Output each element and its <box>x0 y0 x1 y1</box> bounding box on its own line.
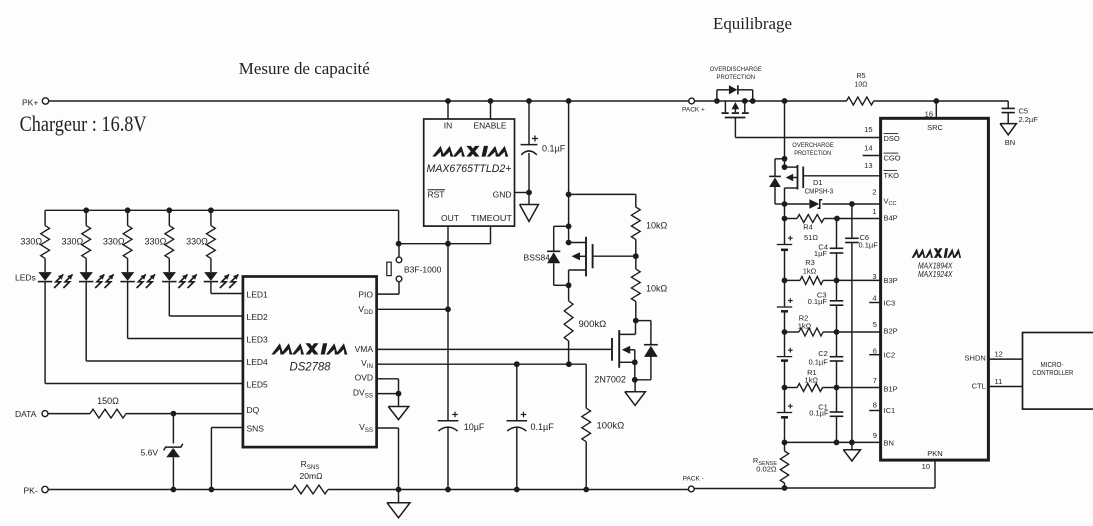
svg-text:7: 7 <box>873 376 877 385</box>
node PACK+ terminal <box>689 98 695 104</box>
LED D2 <box>80 272 93 281</box>
wire R4 to B4P pin1 <box>837 218 881 220</box>
svg-text:B3P: B3P <box>884 276 898 285</box>
svg-text:LED4: LED4 <box>247 357 269 367</box>
wire SHDN pin12 <box>988 358 1022 360</box>
wire VSS <box>377 427 399 429</box>
svg-text:R5: R5 <box>857 73 866 80</box>
resistor 330ohm #3 <box>127 210 129 225</box>
resistor R5 10ohm <box>847 97 874 105</box>
IC U2 DS2788 box <box>243 277 377 448</box>
wire R5 to SRC <box>874 100 937 102</box>
resistor R1 1kohm <box>785 387 798 389</box>
svg-text:B3F-1000: B3F-1000 <box>404 264 442 274</box>
svg-text:GND: GND <box>493 190 512 200</box>
wire zener top <box>172 414 174 444</box>
transistor Q2 2N7002 <box>611 338 613 361</box>
DS2788 MAXIM logo <box>271 343 347 354</box>
overcharge body diode <box>775 158 785 160</box>
wire LED1 to DS2788 <box>210 282 212 294</box>
wire bottom rail mid <box>328 489 688 491</box>
node PK+ terminal <box>42 98 48 104</box>
svg-text:CONTROLLER: CONTROLLER <box>1032 370 1073 377</box>
svg-text:1µF: 1µF <box>814 249 827 258</box>
svg-text:CTL: CTL <box>972 381 986 390</box>
svg-text:330Ω: 330Ω <box>145 236 167 246</box>
node DATA terminal <box>42 411 48 417</box>
stub pin14 CGO <box>863 155 881 157</box>
wire cell4-cell3 <box>784 250 786 307</box>
capacitor C4 1uF <box>836 219 838 249</box>
wire LED anode bus <box>45 209 399 211</box>
wire stack bottom to BN pin9 <box>785 441 881 443</box>
svg-text:2N7002: 2N7002 <box>594 375 626 385</box>
svg-text:B4P: B4P <box>884 214 898 223</box>
svg-text:SNS: SNS <box>247 424 265 434</box>
svg-text:9: 9 <box>873 431 877 440</box>
capacitor 0.1uF mid <box>516 364 518 421</box>
LED D5 <box>204 272 217 281</box>
wire DATA to resistor <box>48 413 90 415</box>
wire DVSS <box>377 393 399 395</box>
svg-text:10: 10 <box>922 462 930 471</box>
svg-text:DQ: DQ <box>247 405 260 415</box>
svg-text:4: 4 <box>872 293 876 302</box>
resistor 330ohm #5 <box>210 210 212 225</box>
svg-text:PACK +: PACK + <box>682 106 705 113</box>
svg-text:10Ω: 10Ω <box>854 81 867 88</box>
wire top rail to BSS84 <box>568 101 570 243</box>
svg-text:DSO: DSO <box>884 134 900 143</box>
wire VIN <box>377 363 587 365</box>
LED D1 <box>38 272 51 281</box>
svg-text:Equilibrage: Equilibrage <box>713 14 792 33</box>
resistor R3 1kohm <box>785 279 801 281</box>
wire battery stack top <box>784 204 786 245</box>
wire SNS to PK- <box>210 428 212 490</box>
svg-text:8: 8 <box>873 400 877 409</box>
MAX1894X MAXIM logo <box>912 248 962 258</box>
svg-text:16: 16 <box>925 110 933 119</box>
svg-text:ENABLE: ENABLE <box>474 121 507 131</box>
svg-text:1kΩ: 1kΩ <box>804 376 818 385</box>
svg-text:LEDs: LEDs <box>15 272 36 282</box>
svg-text:IC1: IC1 <box>884 406 896 415</box>
svg-text:TKO: TKO <box>884 171 900 180</box>
capacitor C6 0.1uF <box>851 204 853 238</box>
resistor 330ohm #4 <box>168 210 170 225</box>
svg-text:10µF: 10µF <box>464 422 485 432</box>
svg-text:CGO: CGO <box>884 154 901 163</box>
ground at DVSS <box>398 394 400 407</box>
wire TIMEOUT pin <box>490 226 492 244</box>
diode D1 CMPSH-3 <box>785 203 810 205</box>
battery cell B3 <box>777 306 792 308</box>
wire PKN pin10 <box>934 460 936 488</box>
MAX6765 MAXIM logo <box>432 146 508 157</box>
wire BSS84 gate <box>594 255 636 257</box>
svg-text:10kΩ: 10kΩ <box>646 284 668 294</box>
overdischarge body diode <box>716 90 718 101</box>
wire cell3-cell2 <box>784 311 786 356</box>
resistor 900kohm <box>568 285 570 301</box>
microcontroller box <box>1023 333 1093 410</box>
stub pin6 IC2 <box>869 354 880 356</box>
svg-text:5: 5 <box>873 320 877 329</box>
svg-text:VMA: VMA <box>355 344 374 354</box>
svg-text:330Ω: 330Ω <box>20 236 42 246</box>
svg-text:1kΩ: 1kΩ <box>798 321 812 330</box>
svg-text:TIMEOUT: TIMEOUT <box>471 213 512 223</box>
resistor RSENSE 0.02ohm <box>784 442 786 451</box>
wire overcharge gate to TKO pin13 <box>804 175 881 177</box>
svg-text:BN: BN <box>1005 138 1015 147</box>
wire to 10k divider <box>569 193 636 195</box>
svg-text:MICRO-: MICRO- <box>1041 362 1065 369</box>
svg-text:0.1µF: 0.1µF <box>809 409 829 418</box>
svg-text:SRC: SRC <box>927 123 943 132</box>
wire cell2-cell1 <box>784 361 786 413</box>
svg-text:BSS84: BSS84 <box>524 253 551 263</box>
transistor Q3 overdischarge MOSFET <box>724 101 726 112</box>
wire cell1-bottom <box>784 417 786 442</box>
svg-text:0.1µF: 0.1µF <box>542 144 566 154</box>
svg-text:D1: D1 <box>813 178 823 187</box>
svg-text:IN: IN <box>444 121 453 131</box>
wire OUT to VDD <box>447 244 449 310</box>
capacitor C5 2.2uF <box>1007 101 1009 108</box>
zener diode 5.6V <box>164 444 183 451</box>
svg-text:DATA: DATA <box>15 409 37 419</box>
resistor RSNS 20mohm <box>292 485 328 494</box>
svg-text:330Ω: 330Ω <box>186 236 208 246</box>
ground at VSS <box>398 490 400 503</box>
svg-text:B2P: B2P <box>884 327 898 336</box>
junction dots on LED bus <box>83 207 89 213</box>
svg-text:1kΩ: 1kΩ <box>803 267 817 276</box>
capacitor C2 0.1uF <box>836 332 838 357</box>
svg-text:330Ω: 330Ω <box>61 236 83 246</box>
svg-text:SHDN: SHDN <box>965 354 986 363</box>
svg-text:LED5: LED5 <box>247 380 269 390</box>
svg-text:13: 13 <box>864 161 872 170</box>
wire LED3 to DS2788 <box>127 282 129 339</box>
svg-text:LED2: LED2 <box>247 312 269 322</box>
svg-text:12: 12 <box>995 349 1003 358</box>
svg-text:B1P: B1P <box>884 385 898 394</box>
LED D4 <box>163 272 176 281</box>
svg-text:51Ω: 51Ω <box>804 233 818 242</box>
svg-text:R4: R4 <box>803 222 813 231</box>
svg-text:0.1µF: 0.1µF <box>808 357 828 366</box>
svg-text:10kΩ: 10kΩ <box>646 221 668 231</box>
svg-text:20mΩ: 20mΩ <box>300 471 323 481</box>
svg-text:2: 2 <box>872 188 876 197</box>
svg-text:PIO: PIO <box>358 290 373 300</box>
capacitor 10uF <box>447 309 449 421</box>
svg-text:100kΩ: 100kΩ <box>597 420 625 431</box>
wire CTL pin11 <box>988 386 1022 388</box>
wire D1 to Vcc pin2 <box>822 203 880 205</box>
svg-text:LED1: LED1 <box>247 290 269 300</box>
wire resistor to DQ <box>126 413 243 415</box>
IC U1 MAX6765TTLD2+ box <box>424 119 515 226</box>
LED D3 <box>121 272 134 281</box>
ground at GND <box>528 193 530 205</box>
svg-text:PK-: PK- <box>24 486 38 496</box>
transistor Q1 BSS84 <box>569 242 586 244</box>
svg-text:150Ω: 150Ω <box>97 396 119 406</box>
wire overdischarge gate to DSO pin15 <box>734 118 736 138</box>
resistor R4 51ohm <box>785 218 798 220</box>
ground at BN <box>851 442 853 449</box>
wire SRC to C5 <box>936 100 1008 102</box>
wire OVD <box>377 378 399 380</box>
battery cell B4 <box>777 244 792 246</box>
svg-text:PROTECTION: PROTECTION <box>794 150 831 157</box>
svg-text:OVERCHARGE: OVERCHARGE <box>792 142 834 149</box>
svg-text:MAX6765TTLD2+: MAX6765TTLD2+ <box>427 163 513 175</box>
svg-text:CMPSH-3: CMPSH-3 <box>805 187 834 196</box>
capacitor 0.1uF at MAX6765 <box>528 101 530 145</box>
svg-text:15: 15 <box>864 125 872 134</box>
node PK- terminal <box>42 486 48 492</box>
wire LED2 to DS2788 <box>168 282 170 316</box>
BSS84 body diode <box>566 223 572 229</box>
wire SRC pin16 <box>935 101 937 118</box>
svg-text:BN: BN <box>884 438 894 447</box>
svg-text:PROTECTION: PROTECTION <box>717 74 756 81</box>
svg-text:PK+: PK+ <box>22 98 38 108</box>
wire LED5 to DS2788 <box>44 282 46 384</box>
stub pin4 IC3 <box>869 302 880 304</box>
svg-text:900kΩ: 900kΩ <box>579 319 607 330</box>
capacitor C3 0.1uF <box>836 280 838 300</box>
switch B3F-1000 <box>396 257 402 263</box>
svg-text:IC2: IC2 <box>884 351 896 360</box>
svg-text:0.1µF: 0.1µF <box>531 422 555 432</box>
wire ENABLE pin <box>490 101 492 119</box>
wire bottom rail right <box>694 488 784 490</box>
junction DQ/zener <box>171 411 177 417</box>
svg-text:1: 1 <box>872 207 876 216</box>
capacitor C1 0.1uF <box>836 388 838 412</box>
wire bottom rail left <box>48 489 292 491</box>
wire top rail right <box>695 100 847 102</box>
svg-text:MAX1924X: MAX1924X <box>918 270 953 279</box>
resistor R2 1kohm <box>785 331 800 333</box>
junction LED bus / B3F <box>396 241 402 247</box>
svg-text:OVERDISCHARGE: OVERDISCHARGE <box>710 66 762 73</box>
svg-text:OVD: OVD <box>355 373 373 383</box>
wire R3 to B3P pin3 <box>837 279 881 281</box>
svg-text:OUT: OUT <box>441 213 459 223</box>
resistor 330ohm #2 <box>85 210 87 225</box>
ground BN at C5 <box>1000 124 1016 135</box>
battery cell B1 <box>777 412 792 414</box>
junction SNS/PK- <box>209 487 215 493</box>
svg-text:2.2µF: 2.2µF <box>1019 115 1039 124</box>
svg-text:PACK -: PACK - <box>683 476 704 483</box>
wire OUT pin <box>447 226 449 244</box>
node PACK- terminal <box>688 486 694 492</box>
stub pin8 IC1 <box>869 410 880 412</box>
svg-text:PKN: PKN <box>927 449 942 458</box>
svg-text:DS2788: DS2788 <box>290 362 332 374</box>
resistor 10kohm lower <box>635 256 637 269</box>
wire zener bottom <box>172 457 174 489</box>
transistor Q4 overcharge MOSFET <box>784 159 786 167</box>
svg-text:0.1µF: 0.1µF <box>808 297 828 306</box>
ground at 2N7002 source <box>634 380 636 392</box>
wire top rail left <box>49 100 689 102</box>
wire PIO <box>377 293 399 295</box>
svg-text:LED3: LED3 <box>247 335 269 345</box>
IC U3 MAX1894X box <box>881 118 989 460</box>
wire IN pin <box>447 101 449 119</box>
wire GND pin <box>515 192 530 194</box>
svg-text:5.6V: 5.6V <box>141 448 159 458</box>
junction zener/PK- <box>171 487 177 493</box>
svg-text:3: 3 <box>872 272 876 281</box>
wire top rail to overcharge MOSFET <box>784 101 786 159</box>
svg-text:0.1µF: 0.1µF <box>859 240 879 249</box>
resistor 330ohm #1 <box>44 210 46 225</box>
resistor 150ohm <box>90 409 126 418</box>
svg-text:11: 11 <box>995 377 1003 386</box>
svg-text:0.02Ω: 0.02Ω <box>756 465 777 474</box>
resistor 100kohm <box>585 364 587 408</box>
svg-text:Mesure de capacité: Mesure de capacité <box>239 59 370 78</box>
2N7002 body diode <box>636 320 651 322</box>
svg-text:IC3: IC3 <box>884 299 896 308</box>
wire VDD pin <box>377 308 448 310</box>
wire LED4 to DS2788 <box>85 282 87 361</box>
svg-text:RST: RST <box>428 190 445 200</box>
svg-text:Chargeur : 16.8V: Chargeur : 16.8V <box>20 111 147 136</box>
wire VMA to 2N7002 gate <box>377 348 612 350</box>
svg-text:14: 14 <box>864 144 872 153</box>
junction BSS84 gate node <box>633 253 639 259</box>
wire R2 to B2P pin5 <box>837 331 881 333</box>
wire R1 to B1P pin7 <box>837 387 881 389</box>
resistor 10kohm upper <box>631 207 640 239</box>
battery cell B2 <box>777 356 792 358</box>
junction OUT <box>445 241 451 247</box>
svg-text:330Ω: 330Ω <box>103 236 125 246</box>
